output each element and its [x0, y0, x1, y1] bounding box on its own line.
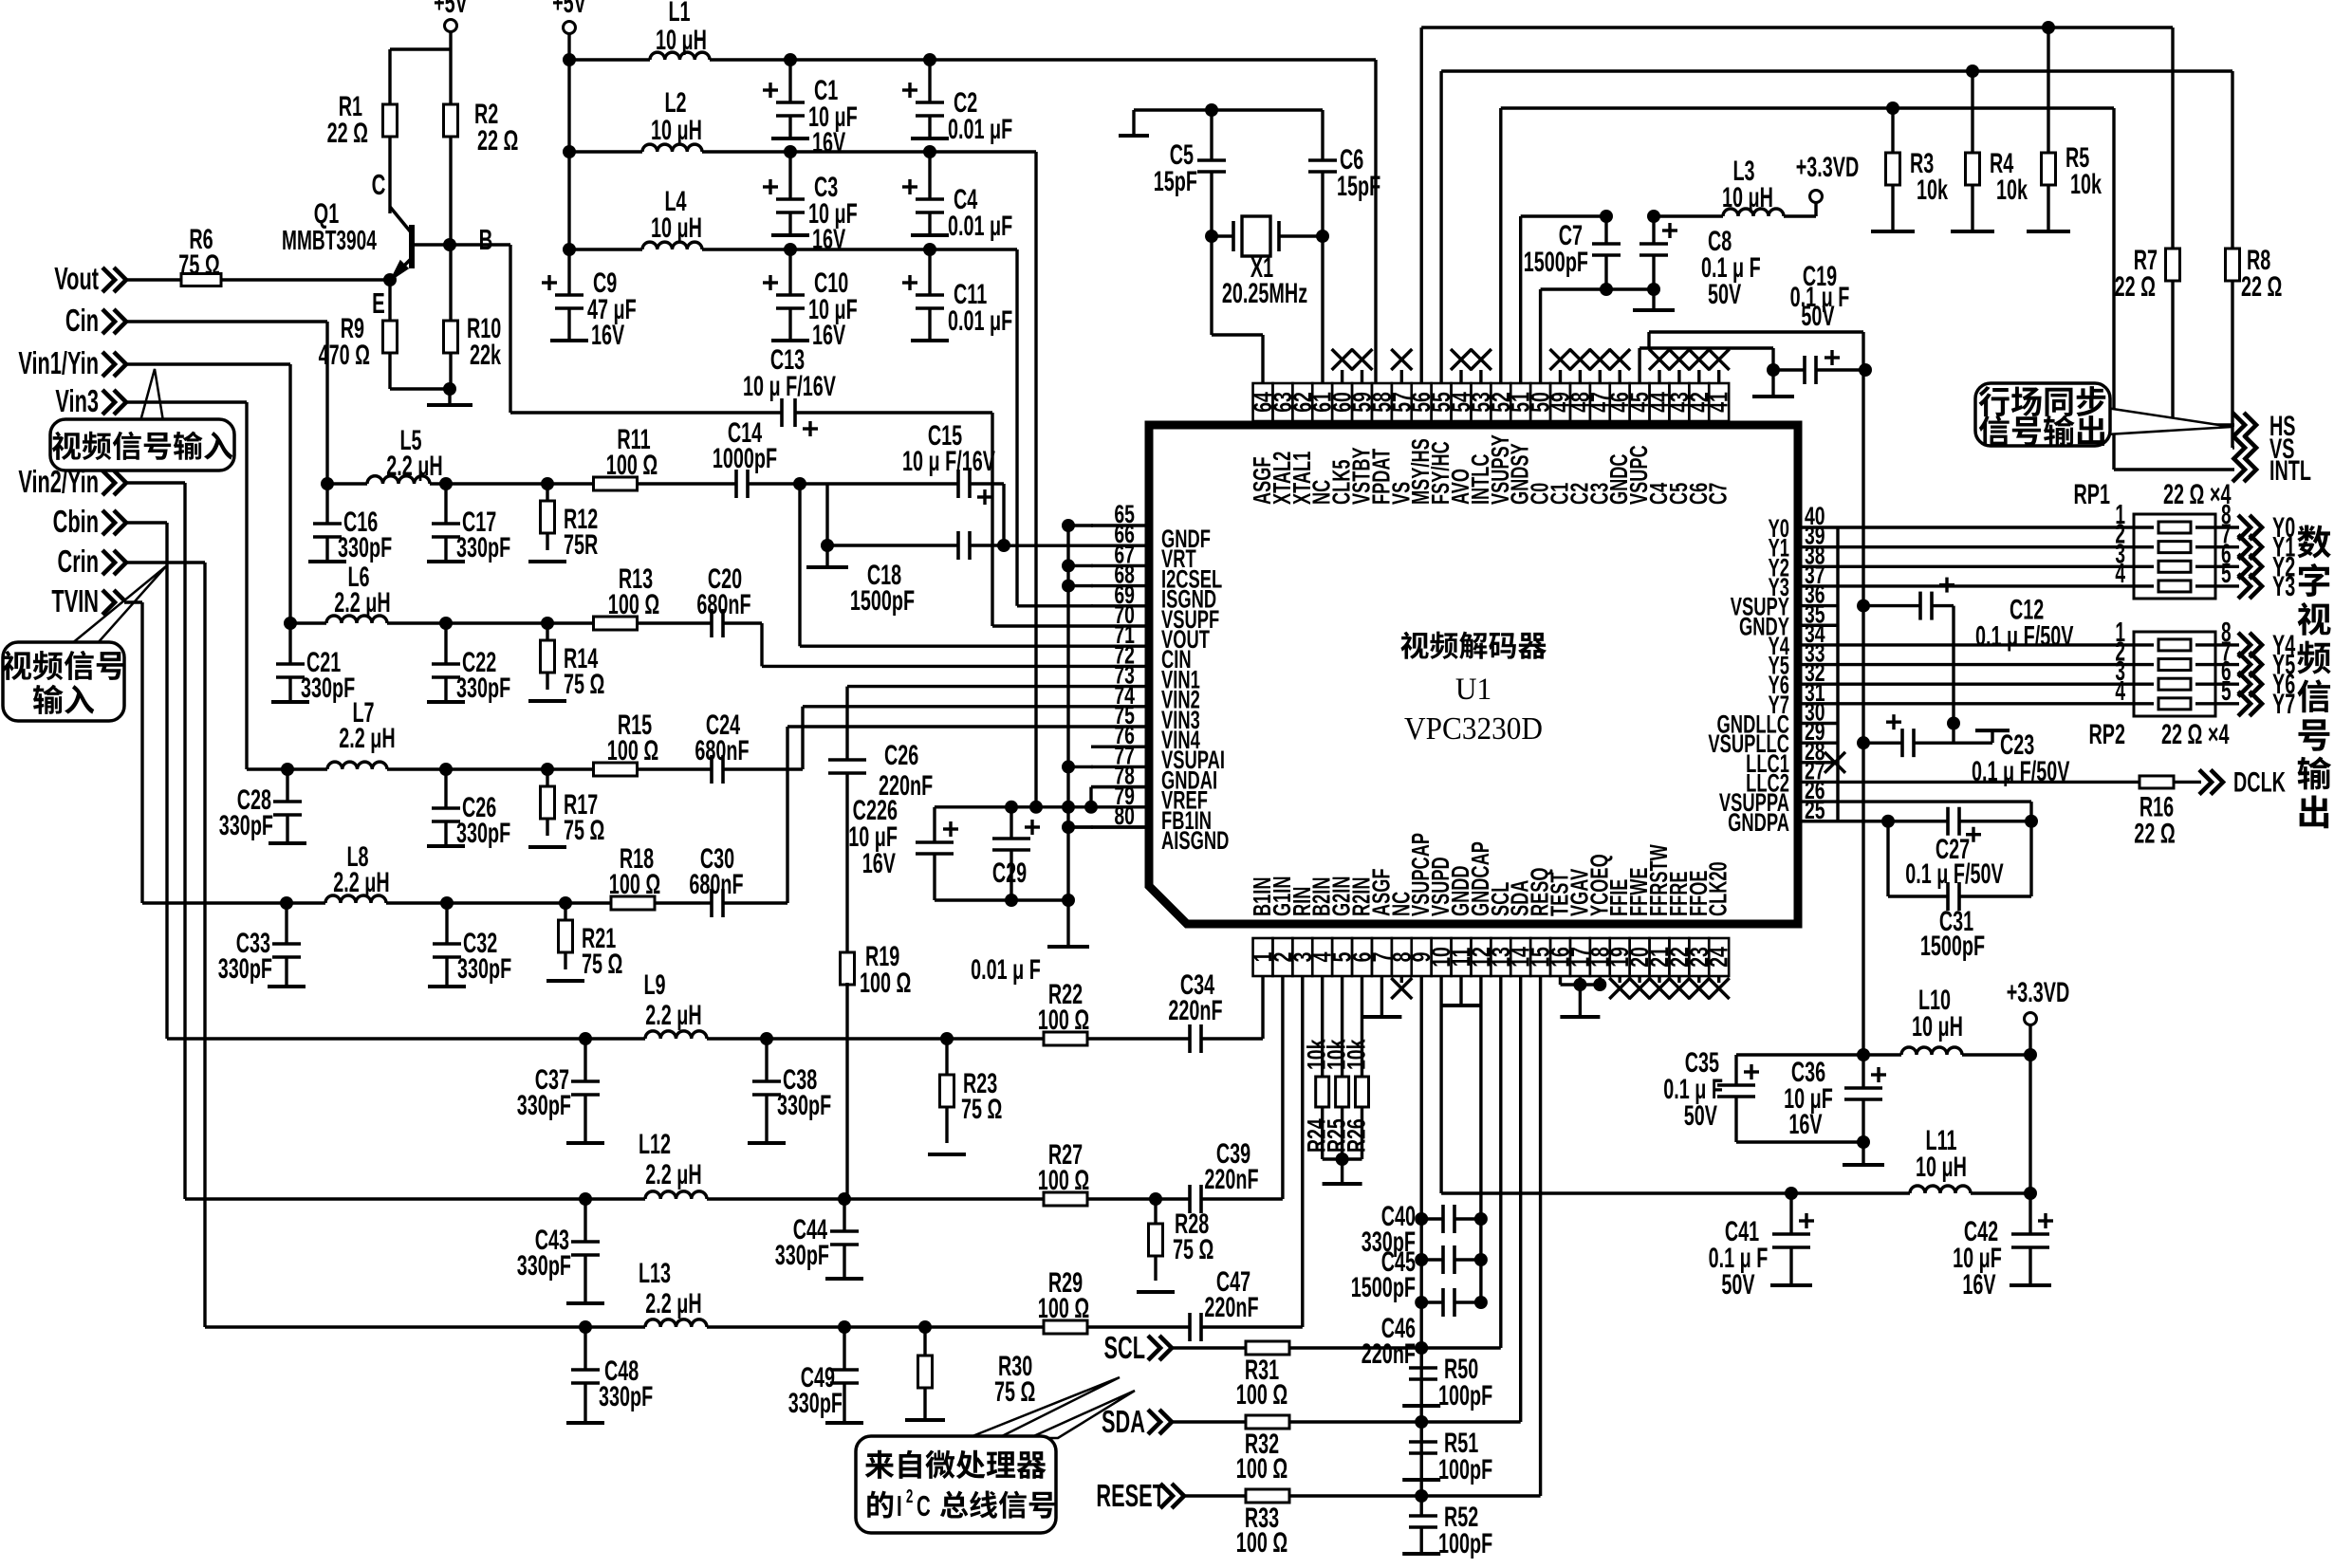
- callout 视频信号输入 upper: [140, 369, 163, 421]
- node: [1415, 1415, 1428, 1429]
- pin 41 no-connect: [1717, 370, 1720, 383]
- wire: [390, 387, 451, 390]
- wire C7 top to L3: [1654, 214, 1723, 217]
- svg-text:75 Ω: 75 Ω: [1173, 1234, 1213, 1265]
- node: [784, 243, 797, 256]
- svg-text:75 Ω: 75 Ω: [582, 949, 622, 980]
- wire to pin 14: [1366, 1420, 1521, 1423]
- resistor R15: [547, 767, 594, 770]
- node: [1857, 1135, 1870, 1149]
- wire C47 to RIN pin3: [1201, 1325, 1303, 1328]
- ground bar: [1066, 900, 1069, 947]
- capacitor C35: [1734, 1055, 1737, 1085]
- inductor L7: [287, 767, 327, 770]
- capacitor C34: [1127, 1037, 1190, 1040]
- svg-text:100 Ω: 100 Ω: [1038, 1293, 1089, 1324]
- inductor L11: [1910, 1186, 1971, 1193]
- wire: [1736, 1140, 1863, 1143]
- svg-text:GNDPA: GNDPA: [1728, 807, 1789, 836]
- ground bar under R9 R10: [427, 403, 472, 407]
- wire Y3: [1838, 584, 2134, 587]
- capacitor C17: [444, 484, 447, 524]
- capacitor R51: [1419, 1422, 1422, 1442]
- ground bar under R5: [2047, 218, 2049, 231]
- +3.3VD terminal top: [1784, 214, 1816, 217]
- wire VIN2 pin73 feeder: [847, 685, 1091, 688]
- wire Vin1 to L6: [124, 362, 290, 365]
- resistor R9: [388, 280, 391, 321]
- pin 23 no-connect: [1697, 976, 1700, 983]
- capacitor C26 330pF: [444, 769, 447, 808]
- svg-text:10 μH: 10 μH: [656, 25, 707, 56]
- svg-text:10k: 10k: [1342, 1039, 1370, 1070]
- node: [784, 53, 797, 66]
- node: [1062, 801, 1075, 814]
- wire L4 rail: [569, 248, 642, 250]
- svg-text:Crin: Crin: [57, 544, 99, 579]
- capacitor C48: [583, 1327, 586, 1370]
- svg-text:C29: C29: [992, 858, 1027, 889]
- capacitor C12: [1857, 600, 1870, 613]
- capacitor C20: [683, 621, 712, 624]
- resistor R29: [925, 1325, 1044, 1328]
- capacitor C37: [583, 1039, 586, 1081]
- node: [1062, 821, 1075, 834]
- wire to pin 13: [1366, 1346, 1501, 1349]
- svg-text:50V: 50V: [1721, 1269, 1754, 1301]
- svg-text:16V: 16V: [812, 320, 845, 351]
- node: [1647, 210, 1660, 223]
- svg-text:330pF: 330pF: [457, 953, 511, 985]
- capacitor C28: [286, 769, 288, 802]
- node: [1966, 65, 1979, 78]
- svg-text:Q1: Q1: [314, 198, 339, 230]
- capacitor C11: [928, 249, 931, 295]
- inductor L3: [1723, 209, 1784, 216]
- svg-text:50V: 50V: [1708, 279, 1741, 310]
- pin 44 no-connect: [1658, 370, 1660, 383]
- wire Y2: [1838, 565, 2134, 568]
- svg-text:680nF: 680nF: [696, 589, 750, 620]
- node: [1600, 283, 1613, 296]
- svg-text:10 μH: 10 μH: [651, 115, 702, 146]
- capacitor R50: [1419, 1348, 1422, 1368]
- pin 57 no-connect: [1400, 370, 1403, 383]
- svg-text:Vin1/Yin: Vin1/Yin: [18, 345, 99, 380]
- svg-text:22 Ω: 22 Ω: [2115, 271, 2156, 303]
- svg-text:U1: U1: [1455, 671, 1491, 706]
- capacitor C6: [1212, 108, 1323, 111]
- node: [707, 1325, 844, 1328]
- pin 8 no-connect: [1400, 976, 1403, 983]
- svg-text:330pF: 330pF: [456, 673, 510, 704]
- label 数字视频信号输出: [2297, 526, 2331, 559]
- inductor L2: [642, 144, 702, 152]
- svg-text:16V: 16V: [812, 224, 845, 255]
- capacitor C10: [788, 249, 791, 295]
- node: [1062, 559, 1075, 572]
- capacitor C1: [788, 60, 791, 102]
- ground bar: [825, 545, 828, 567]
- svg-text:100 Ω: 100 Ω: [1038, 1165, 1089, 1196]
- wire C24 to VIN3 pin74: [723, 767, 803, 770]
- capacitor C35 C36 loop: [1736, 1053, 1863, 1056]
- pin 19 no-connect: [1618, 976, 1621, 983]
- svg-text:C7: C7: [1705, 483, 1732, 505]
- wire C39 to G1IN pin2: [1201, 1197, 1283, 1200]
- svg-text:100 Ω: 100 Ω: [608, 589, 659, 620]
- svg-text:E: E: [372, 286, 385, 320]
- callout 来自微处理器的I2C总线信号: [968, 1377, 1120, 1438]
- svg-text:330pF: 330pF: [456, 532, 510, 563]
- svg-text:L13: L13: [639, 1258, 671, 1289]
- svg-text:0.01 μF: 0.01 μF: [948, 211, 1012, 242]
- svg-text:330pF: 330pF: [775, 1240, 829, 1271]
- node: [579, 1032, 592, 1045]
- node: [321, 477, 334, 490]
- resistor R1: [388, 49, 391, 104]
- svg-text:22 Ω: 22 Ω: [477, 125, 518, 157]
- node: [1062, 519, 1075, 532]
- inductor L5: [327, 482, 367, 485]
- capacitor C2: [928, 60, 931, 102]
- ground stub C23: [1954, 741, 1992, 744]
- node: [1785, 1187, 1798, 1200]
- capacitor C40: [1415, 1212, 1428, 1226]
- svg-text:0.1 μ F/50V: 0.1 μ F/50V: [1905, 858, 2003, 890]
- svg-text:22 Ω ×4: 22 Ω ×4: [2163, 479, 2231, 510]
- resistor network RP2: [2134, 632, 2215, 716]
- svg-text:50V: 50V: [1684, 1100, 1717, 1132]
- resistor R30: [923, 1327, 926, 1356]
- capacitor C18: [827, 544, 958, 546]
- node: [446, 767, 547, 770]
- node: [430, 482, 446, 485]
- node: [2024, 1187, 2037, 1200]
- svg-text:16V: 16V: [1788, 1109, 1822, 1140]
- node: [2024, 1048, 2037, 1061]
- node: [1647, 283, 1660, 296]
- svg-text:SCL: SCL: [1103, 1330, 1145, 1365]
- svg-text:75 Ω: 75 Ω: [994, 1376, 1035, 1408]
- node: [447, 901, 565, 904]
- wire VSUPCAP column: [1419, 976, 1422, 1496]
- wire Crin to L13: [124, 561, 205, 563]
- resistor R18: [565, 901, 611, 904]
- wire block to VRT pin66: [1004, 544, 1091, 547]
- node: [844, 1325, 925, 1328]
- resistor R26: [1361, 976, 1363, 1078]
- pin 7 ASGF ground stub: [1380, 976, 1383, 1017]
- node: [1881, 815, 1895, 828]
- node: [280, 896, 293, 910]
- svg-text:2.2 μH: 2.2 μH: [333, 867, 389, 898]
- svg-text:B: B: [479, 223, 493, 256]
- capacitor C16: [325, 484, 328, 524]
- crystal X1 20.25MHz: [1205, 230, 1218, 243]
- svg-text:1500pF: 1500pF: [1524, 247, 1588, 278]
- resistor R25: [1341, 976, 1343, 1078]
- IC U1 center labels: [1400, 632, 1428, 659]
- svg-text:10 μ F/16V: 10 μ F/16V: [902, 446, 995, 477]
- svg-text:R26: R26: [1342, 1118, 1370, 1153]
- svg-text:0.01 μF: 0.01 μF: [948, 114, 1012, 145]
- node: [579, 1192, 592, 1206]
- capacitor C13: [780, 398, 784, 427]
- wire: [567, 33, 570, 60]
- node: [563, 243, 576, 256]
- svg-text:CLK20: CLK20: [1705, 861, 1732, 916]
- node: [1857, 1048, 1870, 1061]
- capacitor C36: [1862, 1055, 1864, 1088]
- wire: [2028, 1055, 2031, 1193]
- wire C19 top elbow: [1649, 330, 1863, 333]
- svg-text:10 μ F/16V: 10 μ F/16V: [743, 371, 836, 402]
- node: [446, 482, 547, 485]
- capacitor C47: [1127, 1325, 1190, 1328]
- node: [821, 539, 834, 552]
- node B: [443, 238, 456, 251]
- callout 行场同步信号输出: [2106, 408, 2232, 434]
- inductor L1: [650, 52, 710, 60]
- ground bar under C19 left: [1771, 370, 1774, 397]
- capacitor R52: [1419, 1496, 1422, 1516]
- pin 48 no-connect: [1579, 370, 1582, 383]
- wire +5V rail to pin58: [569, 58, 650, 61]
- node: [387, 767, 446, 770]
- svg-text:L12: L12: [639, 1129, 671, 1160]
- capacitor C19: [1773, 368, 1805, 371]
- pin 28 no-connect: [1825, 752, 1845, 773]
- output INTL: [2114, 468, 2234, 470]
- wire VSUPPA elbow: [1838, 800, 2031, 802]
- svg-text:INTL: INTL: [2269, 455, 2311, 487]
- pin 46 no-connect: [1618, 370, 1621, 383]
- wire C12 to GNDLLC: [1952, 606, 1954, 744]
- capacitor C26 220nF: [828, 758, 866, 762]
- node: [707, 1037, 767, 1040]
- svg-text:20.25MHz: 20.25MHz: [1222, 278, 1307, 309]
- resistor R2: [449, 49, 452, 104]
- capacitor C38: [765, 1039, 768, 1081]
- svg-text:100 Ω: 100 Ω: [609, 869, 660, 900]
- pins 16 17 18 tie: [1559, 976, 1562, 985]
- svg-text:25: 25: [1805, 796, 1825, 824]
- node: [563, 145, 576, 158]
- IC left pin numbers 65-80: [1091, 524, 1149, 526]
- wire: [1863, 1053, 1901, 1056]
- svg-text:680nF: 680nF: [689, 869, 743, 900]
- resistor R11: [547, 482, 594, 485]
- svg-text:10 μH: 10 μH: [1916, 1152, 1967, 1183]
- node: [923, 243, 936, 256]
- wire Cin to L5: [124, 320, 327, 323]
- svg-text:22 Ω: 22 Ω: [327, 118, 368, 149]
- svg-text:2.2 μH: 2.2 μH: [645, 1288, 701, 1319]
- svg-text:Vin3: Vin3: [55, 383, 99, 418]
- wire Y4: [1838, 643, 2134, 646]
- svg-text:C26: C26: [884, 740, 918, 771]
- svg-text:330pF: 330pF: [599, 1381, 653, 1412]
- IC bottom pin number strip pins 1-24: [1253, 938, 1273, 976]
- resistor R3: [1891, 108, 1894, 153]
- svg-text:330pF: 330pF: [788, 1388, 843, 1419]
- svg-text:75 Ω: 75 Ω: [564, 669, 604, 700]
- capacitor C43: [583, 1199, 586, 1242]
- wire L2 rail to FB1IN wire: [1029, 801, 1043, 814]
- node: [1062, 580, 1075, 593]
- svg-text:C: C: [917, 1489, 931, 1522]
- callout 视频信号输入 lower: [71, 566, 166, 644]
- capacitor C29: [1005, 801, 1018, 814]
- svg-text:16V: 16V: [591, 320, 624, 351]
- capacitor C33: [285, 903, 287, 944]
- pin 60 no-connect: [1341, 370, 1343, 383]
- ground stub left of C5: [1119, 134, 1149, 138]
- svg-text:Cin: Cin: [65, 303, 99, 338]
- svg-text:220nF: 220nF: [1361, 1338, 1416, 1370]
- svg-text:330pF: 330pF: [456, 818, 510, 849]
- svg-text:75R: 75R: [564, 529, 598, 561]
- svg-text:+3.3VD: +3.3VD: [1796, 152, 1860, 183]
- svg-text:100 Ω: 100 Ω: [606, 450, 658, 481]
- resistor R4: [1971, 71, 1973, 153]
- node: [1947, 717, 1960, 730]
- node: [923, 53, 936, 66]
- svg-text:16V: 16V: [812, 127, 845, 158]
- svg-text:RESET: RESET: [1096, 1478, 1165, 1513]
- wire GNDCAP column: [1479, 976, 1482, 1302]
- svg-text:2.2 μH: 2.2 μH: [645, 1159, 701, 1190]
- svg-text:22 Ω ×4: 22 Ω ×4: [2161, 719, 2229, 750]
- node: [1336, 1153, 1349, 1166]
- node: [923, 145, 936, 158]
- resistor R28: [1154, 1199, 1157, 1224]
- bus INTLC pin52 to INTL: [1499, 108, 1502, 383]
- svg-text:220nF: 220nF: [1204, 1164, 1258, 1195]
- pin 43 no-connect: [1677, 370, 1680, 383]
- svg-text:330pF: 330pF: [219, 810, 273, 841]
- capacitor C39: [1127, 1197, 1190, 1200]
- svg-text:22k: 22k: [470, 340, 502, 371]
- svg-text:100 Ω: 100 Ω: [1038, 1005, 1089, 1036]
- resistor R13: [547, 621, 594, 624]
- IC U1 VPC3230D body: [1149, 425, 1798, 924]
- resistor R10: [449, 245, 452, 321]
- capacitor C4: [928, 152, 931, 199]
- svg-text:DCLK: DCLK: [2233, 766, 2286, 798]
- wire Vin2 to L12: [124, 481, 185, 484]
- wire pin50 to C7 C8 bottom: [1539, 289, 1542, 383]
- wire VSUPD rail: [1439, 976, 1442, 1193]
- svg-text:330pF: 330pF: [338, 532, 392, 563]
- wire Vin3 to L7: [124, 400, 247, 403]
- resistor R32: [1172, 1420, 1246, 1423]
- pin 80 AISGND wire: [1068, 825, 1149, 828]
- resistor R17: [546, 769, 548, 786]
- resistor R31: [1172, 1346, 1246, 1349]
- svg-text:15pF: 15pF: [1154, 166, 1197, 197]
- svg-text:VPC3230D: VPC3230D: [1404, 711, 1543, 747]
- wire pin45 to C19: [1638, 348, 1640, 383]
- svg-text:16V: 16V: [1962, 1269, 1995, 1301]
- resistor R27: [844, 1197, 1044, 1200]
- svg-text:SDA: SDA: [1102, 1404, 1145, 1439]
- svg-text:C: C: [372, 168, 386, 201]
- node: [446, 621, 547, 624]
- IC right pin numbers 40-25: [1798, 526, 1838, 528]
- bus MSY/HS pin56 to HS: [1419, 28, 1422, 383]
- node: [2042, 21, 2055, 34]
- capacitor C8: [1652, 216, 1655, 244]
- svg-text:16V: 16V: [862, 848, 896, 879]
- svg-text:0.01 μF: 0.01 μF: [948, 305, 1012, 337]
- svg-text:AISGND: AISGND: [1161, 825, 1229, 854]
- svg-text:Y3: Y3: [2272, 571, 2295, 602]
- wire to pin 15: [1366, 1494, 1541, 1497]
- node: [1062, 760, 1075, 773]
- svg-text:50V: 50V: [1801, 301, 1834, 332]
- pin 49 no-connect: [1559, 370, 1562, 383]
- svg-text:Cbin: Cbin: [53, 504, 99, 539]
- svg-text:100pF: 100pF: [1438, 1454, 1492, 1485]
- capacitor C30: [710, 889, 713, 917]
- wire: [449, 31, 452, 49]
- svg-text:2.2 μH: 2.2 μH: [386, 451, 442, 482]
- resistor R8: [2231, 71, 2233, 249]
- svg-text:RP2: RP2: [2088, 719, 2125, 750]
- svg-text:680nF: 680nF: [695, 735, 749, 766]
- svg-text:15pF: 15pF: [1337, 171, 1380, 202]
- pin 24 no-connect: [1717, 976, 1720, 983]
- output HS: [2173, 423, 2234, 426]
- svg-text:75 Ω: 75 Ω: [961, 1094, 1002, 1125]
- svg-text:2.2 μH: 2.2 μH: [339, 723, 395, 754]
- wire FB1IN pin79: [935, 805, 1091, 808]
- svg-text:Y7: Y7: [2272, 689, 2295, 720]
- svg-text:100 Ω: 100 Ω: [860, 968, 911, 999]
- capacitor C46: [1415, 1296, 1428, 1309]
- capacitor C24: [683, 767, 712, 770]
- svg-text:330pF: 330pF: [517, 1250, 571, 1282]
- svg-text:24: 24: [1705, 947, 1733, 968]
- ground bar: [1341, 1159, 1343, 1184]
- svg-text:330pF: 330pF: [517, 1090, 571, 1121]
- node: [281, 763, 294, 776]
- node: [387, 621, 446, 624]
- output VS: [2232, 446, 2234, 449]
- node: [997, 539, 1010, 552]
- pin 54 no-connect: [1459, 370, 1462, 383]
- inductor L13: [585, 1325, 645, 1328]
- svg-text:Vout: Vout: [54, 261, 99, 296]
- svg-text:4: 4: [2115, 676, 2125, 707]
- transistor Q1 MMBT3904: [390, 207, 412, 233]
- wire Y6: [1838, 683, 2134, 686]
- pin 11 GNDD ground stub: [1459, 976, 1462, 1005]
- inductor L12: [585, 1197, 645, 1200]
- wire TVIN to L8: [124, 600, 142, 603]
- node: [1415, 1489, 1428, 1503]
- wire Y0: [1838, 526, 2134, 528]
- node: [579, 1320, 592, 1334]
- svg-text:100 Ω: 100 Ω: [1236, 1453, 1287, 1485]
- node: [1149, 1192, 1162, 1206]
- ground bar under R3: [1891, 218, 1894, 231]
- wire Y5: [1838, 663, 2134, 666]
- wire C5 branch to pin64: [1210, 236, 1213, 335]
- svg-text:100pF: 100pF: [1438, 1380, 1492, 1411]
